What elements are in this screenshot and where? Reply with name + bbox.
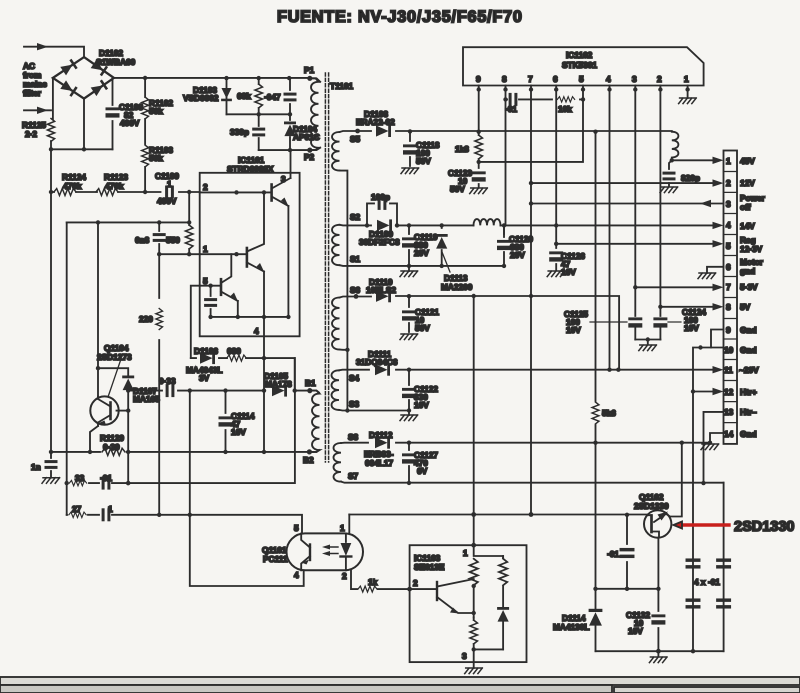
svg-text:5k6: 5k6: [602, 408, 616, 418]
resistor 220: [158, 254, 160, 515]
svg-text:Gnd: Gnd: [740, 429, 757, 439]
svg-text:10: 10: [724, 345, 734, 355]
wire top row 78: [114, 78, 320, 82]
svg-text:10ELS2: 10ELS2: [366, 285, 396, 295]
wire vertical 66.7: [66, 222, 68, 514]
svg-text:1n: 1n: [31, 462, 41, 472]
resistor R1129: [102, 448, 125, 455]
resistor 5k6: [595, 132, 597, 443]
svg-text:7: 7: [528, 74, 533, 84]
wire bottom row: [596, 650, 724, 652]
diode zener IC1103: [502, 586, 504, 607]
svg-text:1: 1: [203, 244, 208, 254]
resistor IC1103 right: [502, 556, 504, 558]
wire Q1104 base row: [117, 410, 129, 412]
svg-text:1: 1: [340, 523, 345, 533]
svg-text:400V: 400V: [157, 196, 177, 206]
node P2: [307, 148, 312, 153]
svg-text:·047: ·047: [264, 92, 281, 102]
svg-text:S6: S6: [350, 285, 361, 295]
svg-text:12: 12: [724, 387, 734, 397]
svg-text:~29V: ~29V: [739, 365, 759, 375]
ground C1124 C1125: [639, 345, 657, 351]
wire pin4 column lower: [263, 358, 265, 452]
wire row 589: [596, 588, 659, 590]
wire sense vertical 473.7: [473, 296, 475, 545]
wire pin8-pin5 row 99: [506, 86, 584, 100]
svg-text:3: 3: [462, 651, 467, 661]
wire Q3 emitter vertical: [237, 301, 239, 317]
svg-text:SE013E: SE013E: [414, 562, 445, 572]
svg-text:100p: 100p: [371, 192, 390, 202]
capacitor C1121: [408, 296, 410, 332]
ground C1118: [401, 168, 419, 174]
capacitor C1114: [225, 391, 227, 452]
svg-text:Gnd: Gnd: [740, 345, 757, 355]
wire loop vertical 189.8: [190, 391, 304, 586]
resistor 10k: [557, 97, 574, 102]
svg-text:14: 14: [724, 429, 734, 439]
svg-text:12·3V: 12·3V: [740, 244, 763, 254]
wire 12V row pin2 conn: [531, 182, 713, 184]
svg-text:330p: 330p: [230, 127, 249, 137]
transistor Q3 interior IC1101: [220, 279, 223, 295]
svg-text:2: 2: [413, 578, 418, 588]
resistor 33: [69, 480, 86, 485]
svg-text:1: 1: [684, 74, 689, 84]
wire pin10 gnd stub: [693, 348, 724, 652]
svg-text:12V: 12V: [740, 178, 755, 188]
svg-text:S8: S8: [348, 432, 359, 442]
capacitor 1: [102, 508, 111, 521]
wire pin9 column: [478, 86, 480, 134]
capacitor 100p loop: [367, 203, 397, 225]
capacitor C1119: [408, 225, 410, 266]
wire C1125 label leader: [590, 321, 627, 323]
opto arrows: [327, 547, 338, 554]
wire S6 row: [340, 296, 620, 370]
wire C1124 label leader: [668, 321, 681, 323]
capacitor C1122: [408, 370, 410, 411]
svg-text:gnd: gnd: [740, 266, 755, 276]
wire AC line 1 with arrow: [24, 47, 84, 57]
capacitor C1127: [408, 443, 410, 483]
svg-text:2SD1330: 2SD1330: [734, 519, 794, 535]
ground 1n: [42, 478, 60, 484]
wire S7 row Htr-: [341, 482, 724, 483]
ground bottom row: [657, 651, 659, 656]
wire collector junction row 368: [98, 368, 128, 376]
svg-text:S5: S5: [350, 134, 361, 144]
svg-text:50V: 50V: [416, 156, 431, 166]
red callout 2SD1330: [678, 523, 729, 526]
diode D1114: [589, 609, 603, 626]
capacitor ·01 small: [102, 477, 111, 490]
svg-text:10V: 10V: [414, 400, 429, 410]
ground C1122: [408, 411, 410, 416]
svg-text:S7: S7: [348, 471, 359, 481]
diode D1112: [375, 437, 390, 449]
wire pin2 column to C1124: [659, 86, 661, 317]
transistor IC1103: [436, 582, 438, 600]
svg-text:Htr–: Htr–: [740, 407, 757, 417]
resistor 550: [188, 192, 190, 254]
ground IC1102 pin1: [679, 98, 697, 104]
svg-text:16V: 16V: [628, 626, 643, 636]
svg-text:20V: 20V: [414, 248, 429, 258]
wire IC1101 pin3 vertical: [290, 150, 292, 178]
svg-text:5V: 5V: [740, 302, 751, 312]
bridge rectifier D1102 S1WBA60: [53, 57, 114, 99]
svg-text:50V: 50V: [450, 184, 465, 194]
wire base row right segment: [349, 514, 648, 516]
wire IC1101 pin5 row interior: [200, 285, 221, 287]
opto LED: [345, 533, 347, 570]
capacitor 820p: [669, 160, 672, 186]
wire row 192 C1109 row: [51, 191, 200, 193]
ground C1123: [470, 188, 488, 194]
svg-text:400V: 400V: [120, 118, 140, 128]
svg-text:2: 2: [657, 74, 662, 84]
wire Power off row pin3 conn: [531, 203, 724, 205]
resistor 27: [69, 512, 86, 517]
svg-text:11: 11: [724, 365, 733, 375]
capacitor C1108: [112, 78, 114, 149]
svg-text:1: 1: [726, 156, 731, 166]
svg-text:5·3V: 5·3V: [740, 282, 758, 292]
diode D1103: [226, 78, 228, 114]
wire AC line 2 with arrow: [24, 109, 51, 111]
svg-text:2SD1330: 2SD1330: [634, 501, 669, 511]
svg-text:P1: P1: [304, 65, 315, 75]
wire row 162 to pin5: [479, 99, 583, 161]
wire IC1101 pin1 row interior: [200, 253, 247, 255]
connector box: [724, 151, 738, 444]
wire S1 row: [340, 264, 505, 267]
wire IC1102 pin1 stub: [687, 86, 689, 99]
wire opto pin2 to 1k: [351, 570, 410, 589]
transistor Q2 interior IC1101: [246, 248, 249, 267]
diode D1105: [272, 385, 287, 397]
svg-text:4: 4: [254, 326, 259, 336]
svg-text:10k: 10k: [558, 104, 572, 114]
resistor 680: [227, 355, 247, 361]
svg-text:33: 33: [75, 473, 85, 483]
capacitor 4x01 d: [716, 598, 731, 608]
diode D1109: [377, 219, 392, 231]
wire S5 winding bottom jog: [340, 171, 348, 411]
wire vertical 98 to Q1104: [97, 222, 99, 396]
IC1101 box STRD6008X: [200, 173, 300, 336]
svg-text:2·2: 2·2: [25, 129, 37, 139]
svg-text:1k8: 1k8: [455, 144, 469, 154]
svg-text:56k: 56k: [149, 106, 163, 116]
svg-text:5: 5: [203, 276, 208, 286]
wire Q1104 label pointer: [108, 359, 121, 397]
capacitor C1132: [651, 614, 665, 624]
svg-text:20V: 20V: [510, 250, 525, 260]
inductor 45V: [672, 132, 679, 161]
svg-text:2SD1273: 2SD1273: [97, 352, 132, 362]
transformer winding S6: [332, 298, 340, 350]
svg-text:680: 680: [227, 346, 241, 356]
svg-text:3: 3: [726, 199, 731, 209]
wire row 390 B1: [128, 391, 319, 393]
wire caps bottom row: [635, 340, 660, 345]
svg-text:P2: P2: [304, 152, 315, 162]
wire pin7 column: [530, 86, 532, 515]
scanner edge band bottom: [0, 677, 800, 685]
wire Reg 12·3V row pin5 conn: [556, 243, 712, 245]
wire Motor gnd stub: [707, 267, 724, 273]
capacitor 330p: [258, 114, 260, 150]
wire S3 row: [339, 409, 409, 412]
wire S4 row ~29V: [339, 369, 713, 372]
transformer primary winding P1-P2: [310, 78, 319, 150]
svg-text:31DQ04C6: 31DQ04C6: [356, 357, 398, 367]
wire row 114: [227, 113, 291, 115]
capacitor 0·33: [166, 384, 175, 397]
svg-text:14V: 14V: [740, 221, 755, 231]
node B1: [307, 388, 312, 393]
wire row 150 P2: [259, 148, 321, 150]
svg-text:MA165: MA165: [133, 394, 160, 404]
diode D1110: [376, 290, 391, 302]
resistor 68k: [258, 78, 260, 114]
wire 45V rail S5 row: [340, 131, 672, 132]
svg-text:S2: S2: [350, 212, 361, 222]
svg-text:S1: S1: [350, 254, 361, 264]
IC1103 box SE013E: [410, 545, 527, 662]
ground pin14: [701, 444, 719, 450]
svg-text:1k: 1k: [368, 577, 378, 587]
capacitor ·01 IC1102: [509, 93, 518, 106]
wire bridge bottom to return row: [51, 99, 113, 150]
diode D1113: [441, 225, 443, 266]
svg-text:5: 5: [579, 74, 584, 84]
svg-text:50V: 50V: [415, 323, 430, 333]
svg-text:4 x ·01: 4 x ·01: [694, 577, 720, 587]
svg-text:7: 7: [726, 282, 731, 292]
wire IC1103 interior mid: [473, 586, 475, 618]
svg-text:8: 8: [502, 74, 507, 84]
resistor R1102: [144, 78, 146, 144]
resistor 1k8: [478, 132, 480, 162]
capacitor 6n8: [158, 222, 160, 254]
wire IC1103 interior bottom: [474, 648, 503, 650]
wire D1106 row: [191, 358, 295, 391]
capacitor C1124: [653, 317, 667, 327]
svg-text:MA178: MA178: [265, 379, 292, 389]
wire pin3 column to C1125: [634, 86, 636, 317]
ground Motor gnd: [698, 273, 716, 279]
capacitor C1123: [478, 162, 480, 187]
svg-text:004L17: 004L17: [365, 458, 394, 468]
svg-text:filter: filter: [23, 88, 42, 98]
svg-text:·01: ·01: [505, 104, 517, 114]
svg-text:STK5391: STK5391: [562, 60, 597, 70]
svg-text:56k: 56k: [149, 153, 163, 163]
diode D1111: [375, 364, 390, 376]
wire row 515 left: [67, 515, 302, 534]
wire pin6 column: [555, 86, 557, 246]
svg-text:3V: 3V: [199, 373, 210, 383]
wire 5V row pin8 conn: [660, 306, 712, 308]
transformer winding B1-B2: [309, 391, 319, 452]
wire pin8 column lower: [504, 99, 506, 234]
svg-text:6V: 6V: [417, 466, 428, 476]
svg-text:45V: 45V: [740, 156, 755, 166]
svg-text:2: 2: [203, 182, 208, 192]
svg-text:MA2200: MA2200: [441, 282, 473, 292]
svg-text:Gnd: Gnd: [740, 325, 757, 335]
transistor Q1102 2SD1330: [644, 510, 671, 537]
resistor IC1103 left: [470, 559, 478, 586]
opto phototransistor: [309, 545, 311, 561]
wire IC1103 pin3 stub: [473, 649, 475, 668]
svg-text:0·33: 0·33: [159, 376, 176, 386]
svg-text:FUENTE: NV-J30/J35/F65/F70: FUENTE: NV-J30/J35/F65/F70: [277, 8, 523, 26]
wire D1107 column: [127, 391, 129, 484]
svg-text:B1: B1: [305, 378, 316, 388]
svg-text:D1106: D1106: [194, 346, 218, 356]
svg-text:·01: ·01: [607, 549, 619, 559]
capacitor C1125: [628, 317, 642, 327]
svg-text:B2: B2: [303, 455, 314, 465]
capacitor 4x01 c: [686, 598, 701, 608]
ground IC1103 pin3: [465, 668, 483, 674]
wire pin14 gnd stub: [710, 433, 724, 443]
svg-text:4: 4: [606, 74, 611, 84]
wire D1113 pointer: [442, 252, 450, 272]
wire 45V row pin1 conn: [672, 159, 713, 161]
svg-text:6: 6: [553, 74, 558, 84]
capacitor C1109: [165, 186, 174, 199]
svg-text:1: 1: [167, 179, 172, 189]
capacitor C1126: [555, 245, 557, 270]
wire row 452 B2: [51, 450, 319, 452]
transformer winding S2-S1: [332, 225, 340, 265]
transformer winding S4-S3: [332, 370, 340, 410]
wire Q1 emitter vertical: [287, 206, 289, 317]
wire S7 row right corner down: [723, 483, 725, 652]
svg-text:MA4130L: MA4130L: [553, 622, 589, 632]
inductor 14V: [474, 219, 501, 225]
wire interior bottom row IC1101: [211, 316, 289, 318]
wire pin9 gnd bracket: [711, 330, 724, 348]
resistor R1103: [144, 167, 146, 192]
wire pin1 row left: [159, 253, 200, 255]
capacitor 4x01 a: [686, 558, 701, 568]
svg-text:220: 220: [139, 314, 153, 324]
wire S6 winding bottom lead: [340, 349, 348, 351]
wire S2 row 14V rail: [340, 224, 713, 227]
svg-text:2: 2: [342, 571, 347, 581]
capacitor interior IC1101: [210, 286, 212, 317]
diode D1104: [289, 114, 291, 150]
wire Q2 collector vertical: [247, 192, 264, 251]
resistor IC1103 bottom: [473, 618, 475, 621]
svg-text:68k: 68k: [237, 91, 251, 101]
svg-text:STRD6008X: STRD6008X: [227, 164, 274, 174]
svg-text:3: 3: [632, 74, 637, 84]
svg-text:16V: 16V: [231, 427, 246, 437]
svg-text:1: 1: [463, 548, 468, 558]
wire 45V bleed column D1114: [595, 443, 597, 652]
svg-text:S1WBA60: S1WBA60: [96, 57, 136, 67]
diode D1108: [376, 125, 391, 137]
wire IC1101 pin4 stub: [263, 317, 265, 358]
transformer T1101 core: [325, 73, 328, 462]
svg-text:T1101: T1101: [330, 81, 353, 91]
svg-text:470k: 470k: [63, 181, 82, 191]
svg-text:10V: 10V: [566, 325, 581, 335]
svg-text:IC1102: IC1102: [566, 50, 593, 60]
wire pin5 outside loop: [191, 286, 200, 358]
svg-text:4: 4: [726, 220, 731, 230]
svg-text:VSD0002: VSD0002: [183, 93, 219, 103]
svg-text:13: 13: [724, 407, 734, 417]
resistor R1123: [96, 189, 118, 196]
capacitor ·01 Q1102: [626, 515, 628, 589]
resistor 1k: [358, 586, 377, 592]
transformer winding S5: [332, 132, 340, 171]
capacitor 4x01 b: [716, 558, 731, 568]
capacitor C1120: [503, 225, 505, 266]
ground 820p: [660, 187, 678, 193]
wire Htr+ row pin12 conn: [693, 391, 713, 393]
wire Q1104 emitter to row 452: [90, 426, 98, 452]
svg-text:10V: 10V: [684, 323, 699, 333]
wire Q1102 emitter column: [657, 538, 659, 652]
svg-text:D1112: D1112: [369, 430, 393, 440]
wire left AC vertical: [52, 78, 54, 119]
node P1: [307, 76, 312, 81]
ground C1126: [547, 271, 565, 277]
svg-text:8: 8: [726, 302, 731, 312]
svg-text:1: 1: [108, 504, 113, 514]
wire S8 gnd rail row: [341, 442, 710, 444]
IC1102 box STK5391: [463, 47, 704, 85]
svg-text:4: 4: [294, 570, 299, 580]
wire row 222: [67, 221, 190, 223]
optocoupler Q1101 PC111: [287, 533, 364, 570]
svg-text:Htr+: Htr+: [740, 387, 757, 397]
wire row 483 left: [66, 358, 295, 483]
capacitor ·047: [289, 78, 291, 114]
svg-text:off: off: [740, 202, 751, 212]
connector pin numbers: [724, 156, 734, 439]
svg-text:6: 6: [726, 262, 731, 272]
svg-text:S3: S3: [349, 399, 360, 409]
wire IC1103 interior top: [474, 545, 503, 558]
svg-text:550: 550: [166, 235, 180, 245]
svg-text:PC111: PC111: [263, 554, 288, 564]
svg-text:9: 9: [726, 325, 731, 335]
svg-text:2: 2: [726, 178, 731, 188]
svg-text:·01: ·01: [100, 473, 112, 483]
ground C1121: [400, 334, 418, 340]
resistor R1124: [54, 189, 76, 196]
svg-text:S4: S4: [349, 373, 360, 383]
svg-text:5: 5: [726, 241, 731, 251]
wire opto pin1 stub: [348, 515, 350, 534]
diode D1107: [122, 376, 134, 391]
ground S1 row: [408, 266, 410, 271]
node B2: [307, 449, 312, 454]
svg-text:ERA22-02: ERA22-02: [356, 117, 395, 127]
svg-text:6n8: 6n8: [135, 235, 150, 245]
